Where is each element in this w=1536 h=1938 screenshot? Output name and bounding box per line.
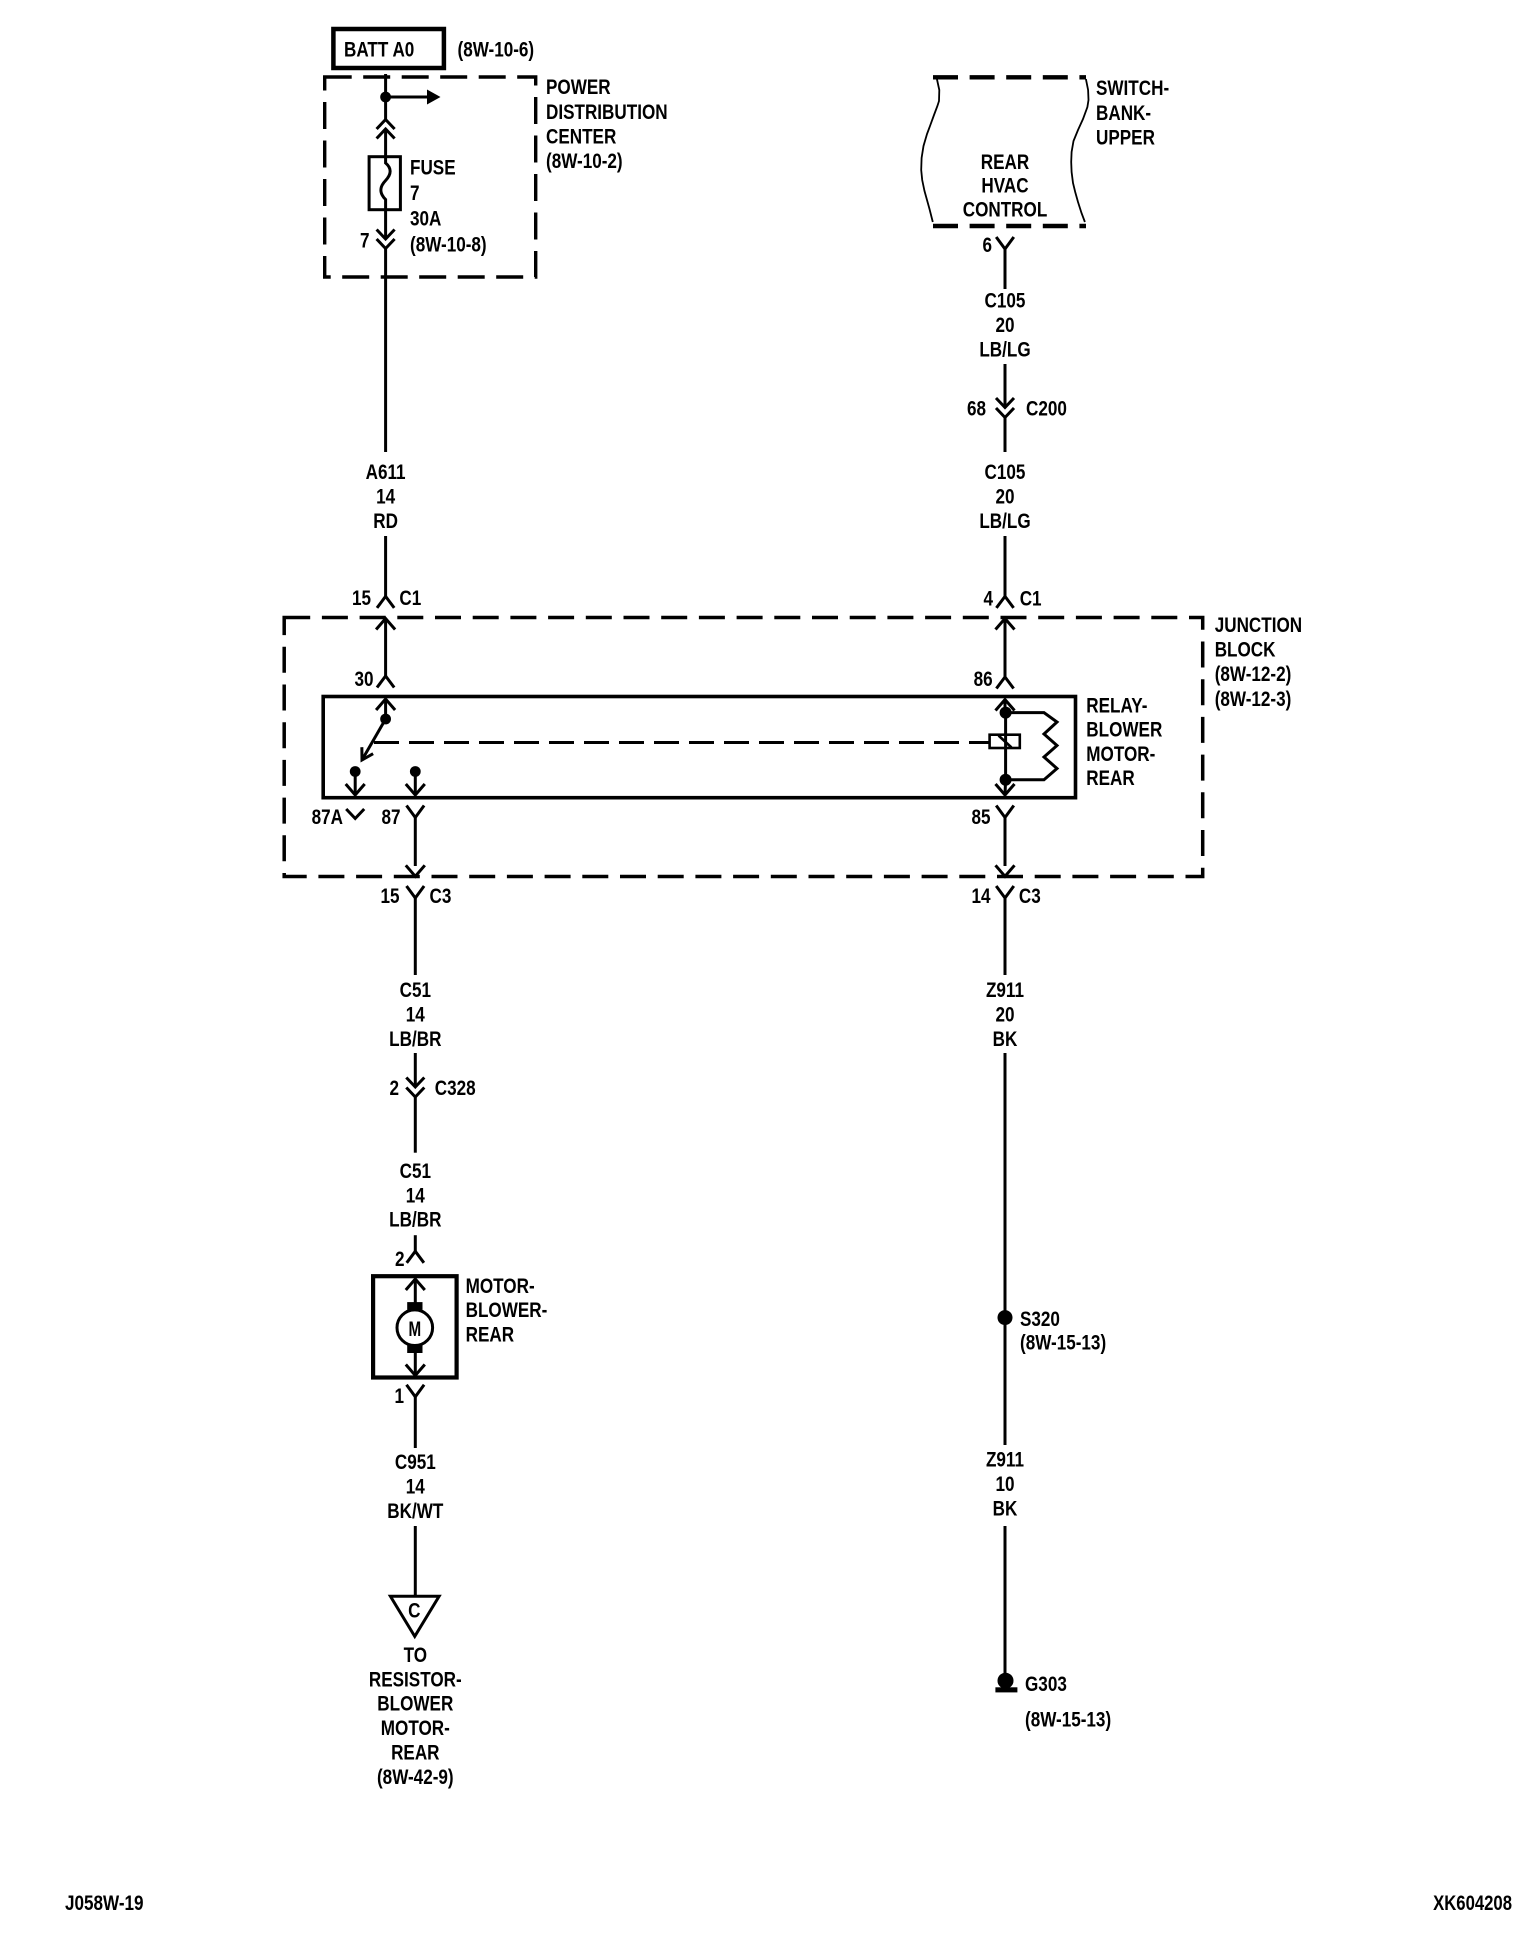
wire into junction block (left), arrow up <box>376 619 395 630</box>
splice S320 <box>998 1310 1013 1325</box>
wire C105 segment 1 <box>1004 249 1007 290</box>
svg-text:7: 7 <box>410 181 420 205</box>
wire Z911 segment 1 <box>1004 898 1007 976</box>
connector motor pin 1 (female Y) <box>407 1385 425 1397</box>
svg-text:(8W-42-9): (8W-42-9) <box>377 1765 454 1789</box>
svg-text:(8W-12-3): (8W-12-3) <box>1215 687 1292 711</box>
label TO RESISTOR-BLOWER MOTOR-REAR (8W-42-9) <box>369 1643 462 1789</box>
label S320 (8W-15-13) <box>1020 1307 1106 1355</box>
label G303 (8W-15-13) <box>1025 1672 1111 1732</box>
svg-text:Z911: Z911 <box>986 978 1024 1002</box>
connector motor pin 2 (male) <box>407 1251 424 1263</box>
svg-text:30: 30 <box>354 667 373 691</box>
connector C1 pin 4 (male) <box>996 596 1013 608</box>
svg-text:BLOCK: BLOCK <box>1215 638 1276 662</box>
svg-text:C1: C1 <box>399 586 421 610</box>
svg-text:C3: C3 <box>1019 884 1041 908</box>
svg-text:BATT A0: BATT A0 <box>344 38 414 62</box>
svg-text:HVAC: HVAC <box>981 174 1028 198</box>
wire label C105 20 LB/LG (upper) <box>979 289 1030 362</box>
svg-text:S320: S320 <box>1020 1307 1060 1331</box>
wire C105 segment 2 <box>1004 364 1007 406</box>
svg-text:BK: BK <box>993 1497 1018 1521</box>
motor: wire to brush <box>414 1279 417 1303</box>
svg-text:RESISTOR-: RESISTOR- <box>369 1668 462 1692</box>
svg-text:SWITCH-: SWITCH- <box>1096 76 1169 100</box>
relay: 87 wire + arrow down <box>406 772 425 796</box>
svg-text:15: 15 <box>380 884 399 908</box>
svg-text:BLOWER: BLOWER <box>377 1692 453 1716</box>
motor: top brush <box>407 1302 422 1310</box>
svg-text:POWER: POWER <box>546 75 611 99</box>
svg-text:MOTOR-: MOTOR- <box>1086 742 1155 766</box>
off-page connector triangle C <box>390 1596 439 1636</box>
label MOTOR-BLOWER-REAR <box>466 1274 548 1347</box>
svg-text:14: 14 <box>406 1003 425 1027</box>
svg-text:RELAY-: RELAY- <box>1086 694 1147 718</box>
svg-text:C105: C105 <box>985 460 1026 484</box>
svg-text:(8W-15-13): (8W-15-13) <box>1020 1331 1106 1355</box>
wire from BATT A0 into PDC <box>384 74 387 97</box>
svg-text:REAR: REAR <box>981 150 1029 174</box>
wire C105 segment 3 <box>1004 418 1007 453</box>
motor M circle <box>397 1310 433 1346</box>
relay: 87A wire + arrow down <box>346 772 365 796</box>
svg-text:20: 20 <box>995 485 1014 509</box>
junction block enclosure (dashed) <box>284 618 1202 877</box>
svg-text:REAR: REAR <box>391 1741 439 1765</box>
motor: bottom brush <box>407 1345 422 1353</box>
label REAR HVAC CONTROL <box>963 150 1048 222</box>
junction dot in PDC <box>380 92 391 103</box>
wire label C51 14 LB/BR (upper) <box>389 978 441 1051</box>
relay: coil bottom dot <box>1000 774 1012 786</box>
svg-text:4: 4 <box>983 587 993 611</box>
svg-text:6: 6 <box>982 233 992 257</box>
motor: entry arrow <box>406 1279 425 1290</box>
node BATT A0 feed box <box>333 29 444 68</box>
wire Z911 segment 3 <box>1004 1318 1007 1445</box>
switch bank upper module (torn dashed box) <box>921 77 1088 226</box>
relay: coil top dot <box>1000 707 1012 719</box>
relay: resistor zigzag branch <box>1006 713 1057 780</box>
wire Z911 segment 2 <box>1004 1053 1007 1318</box>
relay: coil vertical wire <box>1004 713 1007 780</box>
svg-text:C1: C1 <box>1020 587 1042 611</box>
connector 87A (chevron) <box>346 809 364 819</box>
wire A611 lower segment <box>384 536 387 596</box>
connector pin 6 (female Y) <box>996 237 1014 249</box>
svg-text:REAR: REAR <box>1086 766 1134 790</box>
svg-text:FUSE: FUSE <box>410 156 456 180</box>
svg-text:A611: A611 <box>366 460 406 484</box>
svg-text:Z911: Z911 <box>986 1448 1024 1472</box>
svg-text:7: 7 <box>360 229 370 253</box>
svg-text:86: 86 <box>974 667 993 691</box>
svg-text:1: 1 <box>394 1384 404 1408</box>
relay pin 86 connector (male) <box>996 677 1013 689</box>
wire label Z911 20 BK <box>986 978 1024 1051</box>
svg-text:(8W-12-2): (8W-12-2) <box>1215 662 1292 686</box>
svg-text:(8W-10-6): (8W-10-6) <box>458 38 535 62</box>
wire label Z911 10 BK <box>986 1448 1024 1521</box>
svg-text:BLOWER: BLOWER <box>1086 718 1162 742</box>
connector C200 (double chevron down) <box>996 398 1014 418</box>
wire C51 segment 1 <box>414 898 417 976</box>
svg-text:LB/BR: LB/BR <box>389 1027 441 1051</box>
relay: 87 contact dot <box>410 766 421 777</box>
svg-text:C105: C105 <box>985 289 1026 313</box>
svg-text:BANK-: BANK- <box>1096 101 1151 125</box>
connector 87 (female Y) <box>407 806 425 818</box>
relay pin 30 connector (male) <box>377 676 394 688</box>
svg-text:C3: C3 <box>430 884 452 908</box>
wire 87 to C3, arrow down <box>406 817 425 876</box>
svg-text:C951: C951 <box>395 1450 436 1474</box>
svg-text:14: 14 <box>971 884 990 908</box>
wire 85 to C3, arrow down <box>996 817 1015 876</box>
svg-text:DISTRIBUTION: DISTRIBUTION <box>546 100 668 124</box>
svg-text:C200: C200 <box>1026 397 1067 421</box>
svg-text:87A: 87A <box>312 805 343 829</box>
label JUNCTION BLOCK (8W-12-2) (8W-12-3) <box>1215 613 1302 711</box>
svg-text:(8W-15-13): (8W-15-13) <box>1025 1708 1111 1732</box>
connector 85 (female Y) <box>996 806 1014 818</box>
svg-text:M: M <box>408 1316 421 1340</box>
svg-text:2: 2 <box>389 1076 399 1100</box>
svg-text:G303: G303 <box>1025 1672 1067 1696</box>
svg-text:68: 68 <box>967 397 986 421</box>
label RELAY-BLOWER MOTOR-REAR <box>1086 694 1162 791</box>
connector pin 7 (double chevron down) <box>377 230 395 249</box>
svg-text:TO: TO <box>404 1643 427 1667</box>
svg-text:RD: RD <box>373 509 398 533</box>
wire C51 segment 3 <box>414 1097 417 1153</box>
connector C3 pin 14 (female Y) <box>996 886 1014 898</box>
svg-text:CENTER: CENTER <box>546 125 616 149</box>
connector C1 pin 15 (male) <box>377 596 394 608</box>
svg-text:MOTOR-: MOTOR- <box>381 1716 450 1740</box>
svg-text:C328: C328 <box>435 1076 476 1100</box>
relay blower motor rear (box) <box>323 697 1075 798</box>
svg-text:MOTOR-: MOTOR- <box>466 1274 535 1298</box>
wire label C51 14 LB/BR (lower) <box>389 1159 441 1232</box>
wire A611 upper segment <box>384 249 387 453</box>
wire to connector chevrons <box>384 97 387 121</box>
svg-text:BLOWER-: BLOWER- <box>466 1298 548 1322</box>
relay: common contact dot <box>380 714 391 725</box>
relay: pin86 entry arrow <box>996 700 1015 711</box>
svg-text:LB/LG: LB/LG <box>979 338 1030 362</box>
wire label C951 14 BK/WT <box>387 1450 443 1523</box>
motor: wire + exit arrow <box>406 1353 425 1376</box>
svg-text:BK: BK <box>993 1027 1018 1051</box>
relay: 87A contact dot <box>350 766 361 777</box>
wire label C105 20 LB/LG (lower) <box>979 460 1030 533</box>
svg-text:LB/LG: LB/LG <box>979 509 1030 533</box>
svg-text:2: 2 <box>395 1247 405 1271</box>
wire C951 segment 2 <box>414 1526 417 1596</box>
svg-text:14: 14 <box>406 1475 425 1499</box>
wire Z911 segment 4 <box>1004 1526 1007 1674</box>
relay: coil control dashed line <box>374 741 990 744</box>
label SWITCH-BANK-UPPER <box>1096 76 1169 149</box>
wire C951 segment 1 <box>414 1396 417 1448</box>
svg-text:15: 15 <box>352 586 371 610</box>
svg-text:UPPER: UPPER <box>1096 126 1155 150</box>
svg-text:JUNCTION: JUNCTION <box>1215 613 1302 637</box>
wire label A611 14 RD <box>366 460 406 533</box>
svg-text:(8W-10-2): (8W-10-2) <box>546 149 623 173</box>
ground G303 symbol <box>995 1673 1017 1693</box>
relay: pin30 entry arrow <box>376 699 395 710</box>
wire C51 segment 2 <box>414 1053 417 1087</box>
svg-text:10: 10 <box>995 1472 1014 1496</box>
svg-text:LB/BR: LB/BR <box>389 1208 441 1232</box>
wire into junction block (right), arrow up <box>996 619 1015 630</box>
wire chevrons to fuse <box>384 129 387 157</box>
svg-text:C51: C51 <box>400 978 432 1002</box>
svg-text:30A: 30A <box>410 207 441 231</box>
svg-text:20: 20 <box>995 1003 1014 1027</box>
bus feed arrow (to other circuits) <box>386 90 441 105</box>
power distribution center enclosure (dashed) <box>325 77 536 277</box>
label FUSE 7 30A (8W-10-8) <box>410 156 487 257</box>
fuse 7 (30A) <box>369 157 400 210</box>
svg-text:J058W-19: J058W-19 <box>65 1891 144 1915</box>
motor blower rear (box) <box>373 1276 457 1377</box>
connector C328 (double chevron down) <box>406 1078 424 1098</box>
svg-text:XK604208: XK604208 <box>1433 1892 1512 1915</box>
svg-text:20: 20 <box>995 313 1014 337</box>
svg-text:87: 87 <box>381 805 400 829</box>
svg-text:85: 85 <box>971 805 990 829</box>
connector C3 pin 15 (female Y) <box>407 886 425 898</box>
svg-text:C: C <box>408 1599 420 1623</box>
relay: coil symbol box with slash <box>990 735 1020 748</box>
label POWER DISTRIBUTION CENTER (8W-10-2) <box>546 75 668 173</box>
wire fuse to pin 7 <box>384 210 387 239</box>
relay: switch arm (to 87A) with arrowhead <box>362 719 386 760</box>
svg-text:CONTROL: CONTROL <box>963 198 1048 222</box>
svg-text:14: 14 <box>376 485 395 509</box>
svg-text:BK/WT: BK/WT <box>387 1499 443 1523</box>
relay: pin85 wire + arrow down <box>996 780 1015 795</box>
wire C51 segment 4 <box>414 1235 417 1251</box>
svg-text:(8W-10-8): (8W-10-8) <box>410 233 487 257</box>
svg-text:C51: C51 <box>400 1159 432 1183</box>
wire C105 segment 4 <box>1004 536 1007 596</box>
svg-text:REAR: REAR <box>466 1323 514 1347</box>
svg-text:14: 14 <box>406 1184 425 1208</box>
in-line connector (double chevron up) <box>377 120 395 139</box>
